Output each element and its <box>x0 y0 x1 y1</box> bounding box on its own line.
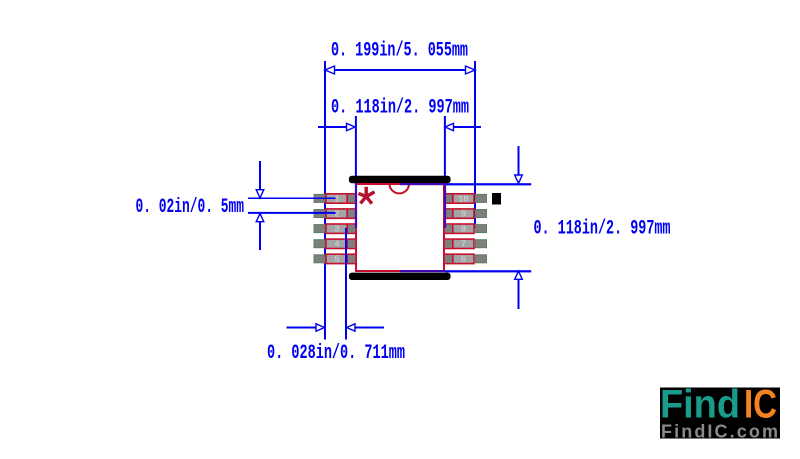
pin 1 lead <box>314 194 325 202</box>
extension line body left edge (blue above body) <box>355 116 357 183</box>
pin 2 lead <box>314 210 325 218</box>
pin 5 lead <box>314 255 325 263</box>
pin 3 lead <box>314 225 325 233</box>
pad 5 <box>326 254 356 265</box>
svg-text:0. 02in/0. 5mm: 0. 02in/0. 5mm <box>136 196 245 219</box>
svg-text:6: 6 <box>461 255 466 265</box>
dimension text 0.199in/5.055mm <box>331 40 468 63</box>
extension line x=346 for 0.028in pad width dim <box>345 228 347 340</box>
svg-text:10: 10 <box>458 194 469 204</box>
dimension text 0.118in/2.997mm (top) <box>331 97 469 120</box>
pad 9 <box>444 209 474 220</box>
dimension text 0.028in/0.711mm <box>267 342 405 365</box>
pin 4 lead <box>314 240 325 248</box>
svg-text:0. 118in/2. 997mm: 0. 118in/2. 997mm <box>534 218 671 241</box>
pad 6 <box>444 254 474 265</box>
svg-text:7: 7 <box>461 240 466 250</box>
IC body outline <box>356 184 444 271</box>
svg-text:Find: Find <box>660 383 740 427</box>
svg-text:4: 4 <box>334 240 339 250</box>
IC body top black bar <box>349 176 451 183</box>
svg-text:0. 199in/5. 055mm: 0. 199in/5. 055mm <box>331 40 468 63</box>
dimension arrows 0.118in right side (vertical, at x=518.5) <box>515 146 523 309</box>
polarity mark black square right of pin 10 <box>492 193 501 205</box>
pin-1 marker asterisk <box>358 187 374 204</box>
pad 10 <box>444 194 474 205</box>
pin-1 notch semicircle <box>390 184 410 193</box>
dimension lines 0.02in pad pitch (horizontal blue lines over pads) <box>248 198 336 213</box>
pin 6 lead <box>476 255 487 263</box>
dimension arrows 0.028in (bottom, inward pointing) <box>287 324 385 331</box>
dimension text 0.02in/0.5mm <box>136 196 245 219</box>
pin 10 lead <box>476 194 487 202</box>
FindIC logo <box>660 383 780 442</box>
dimension arrows 0.118in top (inward pointing) <box>318 123 481 130</box>
dimension text 0.118in/2.997mm (right) <box>534 218 671 241</box>
pin 9 lead <box>476 210 487 218</box>
purple overlap on body side edges <box>355 183 446 228</box>
pad 1 <box>326 194 356 205</box>
pin 7 lead <box>476 240 487 248</box>
pad 8 <box>444 224 474 235</box>
pad 7 <box>444 239 474 250</box>
svg-text:IC: IC <box>744 383 777 427</box>
pad 4 <box>326 239 356 250</box>
dimension line 0.199in overall width with arrows <box>325 66 475 74</box>
svg-text:1: 1 <box>334 194 339 204</box>
pin 8 lead <box>476 225 487 233</box>
svg-text:0. 028in/0. 711mm: 0. 028in/0. 711mm <box>267 342 405 365</box>
svg-text:9: 9 <box>461 209 466 219</box>
extension line left x=325 <box>324 61 326 340</box>
svg-text:3: 3 <box>334 225 339 235</box>
pad 3 <box>326 224 356 235</box>
svg-text:5: 5 <box>334 255 339 265</box>
dimension arrows 0.02in (vertical, at x=260) <box>256 161 264 250</box>
IC body bottom black bar <box>349 273 451 280</box>
svg-text:0. 118in/2. 997mm: 0. 118in/2. 997mm <box>331 97 469 120</box>
svg-text:2: 2 <box>334 209 339 219</box>
extension lines right 0.118in vertical dim (blue from body edges) <box>400 183 531 272</box>
extension line body right edge (blue above body) <box>444 116 446 183</box>
svg-text:8: 8 <box>461 225 466 235</box>
extension line right x=475 <box>474 61 476 228</box>
pad 2 <box>326 209 356 220</box>
